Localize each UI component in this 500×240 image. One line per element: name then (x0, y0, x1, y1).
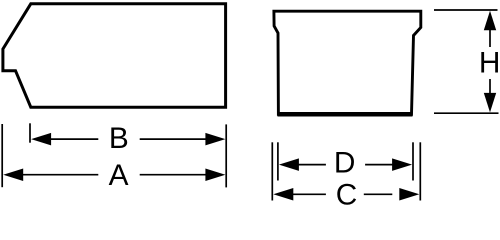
svg-text:D: D (334, 147, 356, 180)
svg-text:A: A (109, 159, 129, 192)
svg-text:B: B (109, 122, 129, 155)
svg-text:H: H (479, 47, 500, 80)
svg-text:C: C (336, 178, 358, 207)
